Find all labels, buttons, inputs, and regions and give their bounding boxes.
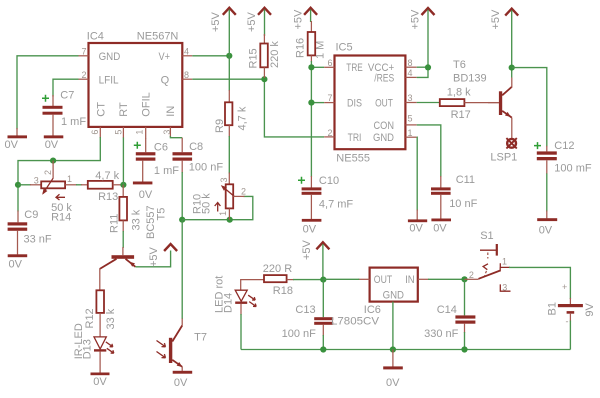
capacitor C13 bbox=[282, 304, 334, 340]
svg-text:R14: R14 bbox=[51, 212, 71, 224]
svg-text:T6: T6 bbox=[453, 59, 466, 71]
svg-text:3: 3 bbox=[162, 130, 172, 135]
potentiometer R10 bbox=[192, 177, 247, 219]
svg-text:C7: C7 bbox=[60, 89, 74, 101]
svg-text:9V: 9V bbox=[584, 302, 596, 316]
svg-text:R13: R13 bbox=[98, 191, 118, 203]
svg-text:IC4: IC4 bbox=[87, 31, 104, 43]
svg-text:RT: RT bbox=[118, 102, 130, 117]
node V+ junction bbox=[226, 53, 232, 59]
svg-text:1 M: 1 M bbox=[315, 41, 327, 59]
svg-text:1: 1 bbox=[502, 257, 507, 267]
svg-text:3: 3 bbox=[34, 175, 39, 185]
IC5 pin names bbox=[346, 62, 394, 144]
svg-text:V+: V+ bbox=[159, 51, 171, 63]
svg-text:IN: IN bbox=[405, 274, 415, 286]
svg-text:IC5: IC5 bbox=[336, 42, 353, 54]
wire T5 collector to R12 bbox=[99, 269, 101, 291]
wire IC4 pin4 V+ to +5V bbox=[192, 55, 229, 57]
node TRE junction bbox=[308, 64, 314, 70]
svg-text:GND: GND bbox=[373, 132, 394, 144]
svg-text:OFIL: OFIL bbox=[141, 92, 153, 116]
svg-text:C12: C12 bbox=[554, 140, 574, 152]
svg-text:3: 3 bbox=[219, 177, 229, 182]
svg-text:C11: C11 bbox=[456, 174, 475, 186]
capacitor C14 bbox=[424, 304, 475, 340]
svg-text:TRE: TRE bbox=[346, 62, 363, 74]
diode D13 IR-LED bbox=[73, 323, 114, 372]
wire RT riser bbox=[122, 138, 124, 185]
resistor R13 bbox=[88, 170, 124, 203]
svg-text:2: 2 bbox=[469, 270, 474, 280]
supply +5V arrow A6 bbox=[148, 244, 177, 267]
svg-text:0V: 0V bbox=[139, 189, 153, 201]
wire S1 pin1 to battery bbox=[509, 267, 570, 299]
svg-text:OUT: OUT bbox=[375, 97, 393, 109]
node RT junction bbox=[120, 182, 126, 188]
svg-text:6: 6 bbox=[90, 130, 100, 135]
svg-text:GND: GND bbox=[99, 51, 121, 63]
ground G5 bbox=[302, 219, 322, 236]
svg-text:R15: R15 bbox=[248, 48, 260, 68]
svg-text:LSP1: LSP1 bbox=[490, 152, 517, 164]
svg-text:C14: C14 bbox=[437, 304, 457, 316]
svg-text:+5V: +5V bbox=[410, 9, 422, 30]
svg-text:+: + bbox=[562, 282, 567, 292]
svg-text:0V: 0V bbox=[93, 376, 107, 388]
svg-text:100 mF: 100 mF bbox=[554, 163, 592, 175]
wire IN net horizontal bbox=[182, 196, 253, 219]
resistor R16 bbox=[295, 21, 327, 62]
svg-text:1: 1 bbox=[67, 174, 72, 184]
svg-text:0V: 0V bbox=[386, 377, 400, 389]
svg-text:2: 2 bbox=[241, 187, 246, 197]
svg-text:33 k: 33 k bbox=[131, 209, 143, 230]
supply +5V arrow A2 bbox=[246, 8, 271, 36]
wire IC5 CON to C11 bbox=[417, 125, 441, 177]
wire R9 to R10 bbox=[228, 136, 230, 174]
wire battery to rail bbox=[569, 321, 571, 350]
IC4 NE567N box bbox=[89, 43, 183, 127]
svg-text:R12: R12 bbox=[84, 308, 96, 328]
ground G8 bbox=[537, 218, 557, 236]
svg-text:C10: C10 bbox=[319, 175, 339, 187]
node R10 pin1 junction bbox=[227, 217, 233, 223]
speaker terminal LSP1 bbox=[490, 138, 517, 163]
svg-text:IN: IN bbox=[165, 106, 177, 117]
svg-text:2: 2 bbox=[81, 70, 86, 80]
svg-text:R17: R17 bbox=[451, 109, 471, 121]
svg-text:LFIL: LFIL bbox=[99, 74, 119, 86]
svg-text:1,8 k: 1,8 k bbox=[447, 87, 471, 99]
wire IC6 IN bbox=[418, 278, 465, 280]
node Q junction R15 bbox=[261, 76, 267, 82]
svg-text:C13: C13 bbox=[295, 304, 315, 316]
capacitor C7 bbox=[42, 89, 86, 135]
node IN net T junction bbox=[179, 217, 185, 223]
svg-text:4,7 mF: 4,7 mF bbox=[319, 199, 354, 211]
svg-text:7: 7 bbox=[81, 47, 86, 57]
node rail C13 bbox=[320, 346, 326, 352]
svg-text:NE567N: NE567N bbox=[137, 31, 179, 43]
capacitor C12 bbox=[534, 140, 592, 218]
IC4 pin stubs bbox=[79, 56, 193, 139]
supply +5V arrow A1 bbox=[210, 8, 236, 91]
svg-text:4,7 k: 4,7 k bbox=[95, 170, 119, 182]
svg-text:T7: T7 bbox=[194, 332, 207, 344]
IC5 pin numbers bbox=[327, 58, 412, 138]
ground G2 bbox=[44, 135, 64, 150]
wire IC6 OUT bbox=[323, 278, 369, 280]
svg-text:1: 1 bbox=[218, 211, 228, 216]
svg-text:-: - bbox=[566, 317, 569, 327]
svg-text:100 nF: 100 nF bbox=[189, 161, 224, 173]
wire R16 to TRE and DIS and C10 bbox=[310, 61, 312, 177]
node C9 junction bbox=[15, 182, 21, 188]
svg-text:0V: 0V bbox=[409, 223, 423, 235]
potentiometer R14 bbox=[34, 161, 77, 224]
wire IC4 pin3 IN to C8 bbox=[170, 136, 182, 138]
svg-text:CON: CON bbox=[374, 120, 395, 132]
svg-text:4,7 k: 4,7 k bbox=[237, 106, 249, 130]
node VCC junction bbox=[425, 64, 431, 70]
svg-text:+5V: +5V bbox=[246, 11, 258, 32]
node T6 collector junction bbox=[509, 65, 515, 71]
capacitor C6 bbox=[134, 139, 179, 182]
svg-text:DIS: DIS bbox=[347, 97, 362, 109]
wire ground rail bbox=[241, 349, 570, 351]
svg-text:R16: R16 bbox=[295, 38, 307, 58]
wire T6 collector to C12 bbox=[512, 68, 547, 147]
svg-text:TRI: TRI bbox=[348, 132, 362, 144]
svg-text:5: 5 bbox=[113, 130, 123, 135]
svg-text:GND: GND bbox=[383, 290, 404, 302]
resistor R9 bbox=[214, 90, 249, 137]
svg-text:10 nF: 10 nF bbox=[449, 198, 477, 210]
svg-text:D14: D14 bbox=[223, 293, 235, 313]
svg-text:R9: R9 bbox=[214, 119, 226, 133]
svg-text:+5V: +5V bbox=[292, 9, 304, 30]
svg-text:2: 2 bbox=[43, 170, 53, 175]
capacitor C8 bbox=[173, 138, 224, 174]
IC4 pin names bbox=[96, 51, 178, 117]
wire C8 down to node bbox=[181, 172, 183, 220]
wire node to C14 bbox=[464, 279, 466, 315]
svg-text:L7805CV: L7805CV bbox=[331, 316, 380, 328]
capacitor C9 bbox=[8, 209, 52, 255]
ground G4 bbox=[8, 254, 28, 270]
resistor R12 bbox=[84, 290, 117, 337]
svg-text:NE555: NE555 bbox=[336, 153, 370, 165]
svg-text:7: 7 bbox=[327, 93, 332, 103]
IC5 NE555 box bbox=[335, 56, 406, 150]
wire pin2 IC4 LFIL net bbox=[53, 79, 79, 96]
svg-text:S1: S1 bbox=[480, 230, 493, 242]
resistor R17 bbox=[440, 87, 499, 122]
svg-text:1 mF: 1 mF bbox=[154, 165, 179, 177]
IC5 pin stubs bbox=[324, 67, 417, 137]
svg-text:+5V: +5V bbox=[210, 11, 222, 32]
wire D14 cathode to rail bbox=[240, 314, 242, 350]
svg-text:1 mF: 1 mF bbox=[61, 116, 86, 128]
svg-text:3: 3 bbox=[502, 282, 507, 292]
svg-text:100 nF: 100 nF bbox=[282, 328, 317, 340]
svg-text:R11: R11 bbox=[109, 214, 121, 233]
resistor R18 bbox=[263, 263, 294, 297]
svg-text:0V: 0V bbox=[174, 377, 188, 389]
svg-text:0V: 0V bbox=[433, 223, 447, 235]
wire R11 to T5 base bbox=[122, 231, 124, 248]
svg-text:33 nF: 33 nF bbox=[24, 233, 52, 245]
wire R18 to D14 bbox=[241, 280, 264, 291]
battery B1 bbox=[547, 282, 597, 327]
IC6 L7805CV box bbox=[370, 268, 418, 302]
svg-text:3: 3 bbox=[408, 93, 413, 103]
node wiper junction bbox=[50, 158, 56, 164]
svg-text:1: 1 bbox=[134, 130, 144, 135]
svg-text:8: 8 bbox=[184, 70, 189, 80]
svg-text:+5V: +5V bbox=[148, 246, 160, 267]
wire pin7 IC4 GND net horizontal bbox=[17, 56, 79, 130]
svg-text:CT: CT bbox=[96, 102, 108, 117]
wire CT net IC4 pin6 bbox=[18, 137, 100, 212]
IC6 pin names bbox=[374, 274, 415, 302]
svg-text:4: 4 bbox=[408, 68, 413, 78]
wire C14 to rail bbox=[464, 332, 466, 350]
svg-text:D13: D13 bbox=[81, 339, 93, 359]
node rail IC6 GND bbox=[390, 346, 396, 352]
ground G7 bbox=[431, 219, 451, 235]
wire T5 emitter to +5V bbox=[135, 251, 170, 267]
svg-text:0V: 0V bbox=[303, 224, 317, 236]
svg-text:C9: C9 bbox=[24, 209, 38, 221]
ground G11 bbox=[383, 350, 403, 390]
node +5V reg junction bbox=[320, 277, 326, 283]
svg-text:0V: 0V bbox=[45, 139, 59, 151]
ground G6 bbox=[408, 210, 427, 235]
svg-text:C8: C8 bbox=[189, 141, 203, 153]
svg-text:220 k: 220 k bbox=[269, 41, 281, 68]
svg-text:0V: 0V bbox=[5, 139, 19, 151]
svg-text:4: 4 bbox=[184, 47, 189, 57]
svg-text:BD139: BD139 bbox=[453, 73, 487, 85]
capacitor C10 bbox=[298, 175, 353, 219]
diode D14 LED rot bbox=[214, 276, 257, 315]
svg-text:5: 5 bbox=[408, 114, 413, 124]
node DIS junction bbox=[308, 100, 314, 106]
svg-text:8: 8 bbox=[408, 58, 413, 68]
capacitor C11 bbox=[431, 174, 478, 219]
wire R14 pin3 bbox=[18, 184, 31, 186]
wire IC4 pin8 Q net bbox=[192, 79, 324, 137]
supply +5V arrow A3 bbox=[292, 8, 317, 30]
svg-text:+5V: +5V bbox=[490, 9, 502, 30]
svg-text:6: 6 bbox=[327, 58, 332, 68]
ground G1 bbox=[5, 128, 28, 151]
svg-text:B1: B1 bbox=[547, 302, 559, 315]
svg-text:1: 1 bbox=[408, 128, 413, 138]
wire IC6 GND to rail bbox=[392, 302, 394, 350]
node rail C14 bbox=[461, 346, 467, 352]
svg-text:33 k: 33 k bbox=[105, 308, 117, 329]
transistor T5 BC557 bbox=[100, 205, 168, 269]
svg-text:C6: C6 bbox=[154, 141, 168, 153]
transistor T7 photo bbox=[157, 319, 207, 371]
svg-text:/RES: /RES bbox=[374, 72, 394, 84]
svg-text:220 R: 220 R bbox=[263, 263, 292, 275]
wire IC5 pin1 GND to ground bbox=[416, 137, 419, 210]
wire C13 to rail bbox=[322, 335, 324, 350]
ground G10 bbox=[173, 371, 193, 389]
wire T7 collector net bbox=[181, 220, 183, 319]
svg-text:OUT: OUT bbox=[374, 274, 393, 286]
svg-text:2: 2 bbox=[327, 128, 332, 138]
switch S1 bbox=[465, 230, 511, 292]
svg-text:R18: R18 bbox=[273, 285, 293, 297]
svg-text:Q: Q bbox=[161, 74, 170, 86]
ground G9 bbox=[91, 373, 110, 389]
svg-text:330 nF: 330 nF bbox=[424, 328, 459, 340]
resistor R11 bbox=[109, 185, 143, 233]
svg-text:+5V: +5V bbox=[301, 239, 313, 260]
wire IC5 OUT to R17 bbox=[417, 102, 441, 104]
IC4 pin numbers bbox=[81, 47, 189, 135]
supply +5V arrow A7 bbox=[301, 239, 329, 279]
svg-text:0V: 0V bbox=[9, 258, 23, 270]
ground G3 bbox=[133, 182, 153, 201]
supply +5V arrow A5 bbox=[490, 9, 518, 78]
svg-text:T5: T5 bbox=[156, 208, 168, 221]
wire IC5 pin8 pin4 to +5V bbox=[417, 66, 428, 68]
svg-text:50 k: 50 k bbox=[201, 193, 213, 214]
node IN C14 S1 junction bbox=[461, 276, 467, 282]
wire node to C13 bbox=[322, 280, 324, 318]
wire R18 to +5V node bbox=[293, 279, 323, 281]
transistor T6 BD139 bbox=[453, 59, 512, 139]
resistor R15 bbox=[248, 34, 282, 78]
svg-text:IC6: IC6 bbox=[364, 304, 381, 316]
svg-text:0V: 0V bbox=[539, 224, 553, 236]
supply +5V arrow A4 bbox=[410, 8, 435, 68]
wire R14 pin1 to R13 bbox=[76, 184, 82, 186]
